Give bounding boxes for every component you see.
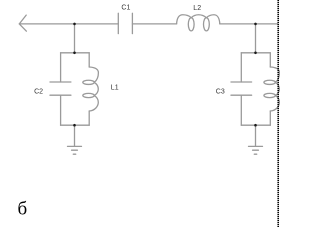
junction right tank bottom <box>254 124 257 127</box>
right tank top rail <box>241 52 270 54</box>
right tank bottom rail <box>241 124 270 126</box>
wire above L1 <box>88 53 90 67</box>
junction node A top <box>73 23 76 26</box>
svg-text:L1: L1 <box>111 85 119 92</box>
inductor L2 <box>177 15 192 24</box>
svg-text:L2: L2 <box>193 5 201 12</box>
svg-text:б: б <box>18 199 28 220</box>
wire above C3 <box>240 53 242 82</box>
wire above right inductor <box>269 53 271 67</box>
left rail upper (to C2) <box>60 53 62 82</box>
ground right <box>249 145 263 147</box>
wire below C2 <box>60 95 62 125</box>
arrow open head left <box>19 15 26 31</box>
wire below right inductor <box>269 111 271 125</box>
wire below C3 <box>240 95 242 125</box>
capacitor C3 <box>231 81 252 83</box>
junction left tank bottom <box>73 124 76 127</box>
wire stem to left ground <box>74 125 76 146</box>
capacitor C1 <box>117 13 119 33</box>
wire top-left segment <box>19 23 118 25</box>
wire stem to right ground <box>255 125 257 146</box>
wire between C1 and L2 <box>132 23 176 25</box>
wire L2 to right edge <box>220 23 278 25</box>
junction node B top <box>254 23 257 26</box>
left tank top rail <box>61 52 90 54</box>
page boundary dashed line <box>277 0 279 227</box>
svg-text:C3: C3 <box>216 88 225 95</box>
junction right tank top <box>254 52 257 55</box>
capacitor C2 <box>50 81 71 83</box>
inductor right (unlabeled) <box>270 67 279 82</box>
wire below L1 <box>88 111 90 125</box>
svg-text:C2: C2 <box>34 88 43 95</box>
wire stem node B down <box>255 24 257 53</box>
ground left <box>68 145 82 147</box>
left tank bottom rail <box>61 124 90 126</box>
svg-text:C1: C1 <box>121 4 130 11</box>
inductor L1 <box>89 67 98 82</box>
wire stem node A down <box>74 24 76 53</box>
junction left tank top <box>73 52 76 55</box>
